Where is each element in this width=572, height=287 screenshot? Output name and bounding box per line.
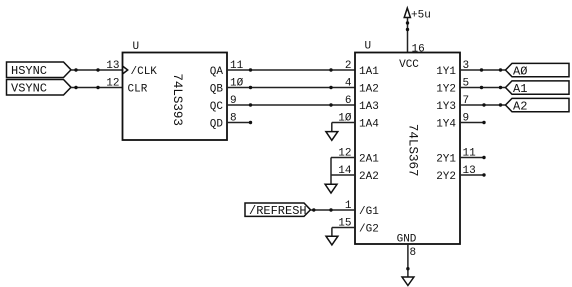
svg-text:74LS367: 74LS367 [406, 124, 420, 177]
svg-text:HSYNC: HSYNC [11, 64, 47, 78]
svg-text:U: U [133, 41, 140, 53]
power +5v symbol [404, 8, 431, 22]
wire 2A2 to ground [331, 158, 355, 185]
wire 2A1 to ground [331, 157, 355, 159]
svg-text:1A1: 1A1 [359, 66, 379, 78]
svg-text:/CLK: /CLK [131, 66, 158, 78]
svg-text:2A2: 2A2 [359, 171, 379, 183]
svg-text:QD: QD [210, 119, 224, 131]
wire 1Y3 to A2 [460, 103, 506, 106]
svg-text:13: 13 [106, 60, 119, 72]
svg-text:2Y2: 2Y2 [436, 171, 456, 183]
ground 2A1 2A2 [325, 184, 337, 193]
svg-text:1Y3: 1Y3 [436, 101, 456, 113]
wire 1Y2 to A1 [460, 86, 506, 89]
wire HSYNC to U1 pin 13 [71, 68, 123, 71]
counter U 74LS393 body [123, 41, 228, 140]
svg-text:8: 8 [410, 247, 417, 259]
svg-text:/G1: /G1 [359, 206, 379, 218]
wire stub QD [227, 121, 252, 124]
svg-text:16: 16 [412, 43, 425, 55]
svg-text:/REFRESH: /REFRESH [249, 204, 307, 218]
svg-text:1Y2: 1Y2 [436, 84, 456, 96]
wire /REFRESH to G1 pin 1 [311, 208, 356, 211]
svg-text:VCC: VCC [399, 59, 419, 71]
buffer U 74LS367 body [355, 41, 460, 246]
svg-text:2: 2 [345, 60, 352, 72]
output flag A1 [506, 81, 570, 96]
wire stub 2Y2 [460, 173, 486, 176]
svg-text:4: 4 [345, 78, 352, 90]
svg-text:1A2: 1A2 [359, 84, 379, 96]
wire QB to 1A2 [227, 86, 355, 89]
svg-text:1Y4: 1Y4 [436, 119, 456, 131]
output flag A0 [506, 63, 570, 78]
wire 1A4 to ground [332, 123, 355, 132]
clock wedge pin 13 [123, 66, 128, 74]
svg-text:A2: A2 [513, 99, 527, 113]
wire stub 2Y1 [460, 156, 486, 159]
svg-text:6: 6 [345, 95, 352, 107]
input flag HSYNC [7, 62, 72, 78]
ground G2 [326, 236, 338, 245]
svg-text:1Y1: 1Y1 [436, 66, 456, 78]
svg-text:1A4: 1A4 [359, 119, 379, 131]
svg-text:12: 12 [106, 78, 119, 90]
svg-text:74LS393: 74LS393 [170, 73, 184, 126]
svg-text:QB: QB [210, 84, 224, 96]
svg-text:1: 1 [345, 200, 352, 212]
svg-text:QC: QC [210, 101, 224, 113]
wire QA to 1A1 [227, 68, 355, 71]
ground 1A4 [326, 132, 338, 141]
svg-text:QA: QA [210, 66, 224, 78]
svg-text:2Y1: 2Y1 [436, 154, 456, 166]
svg-text:/G2: /G2 [359, 224, 379, 236]
svg-text:A1: A1 [513, 82, 527, 96]
wire 1Y1 to A0 [460, 68, 506, 71]
wire GND pin to ground [406, 244, 409, 277]
output flag A2 [506, 98, 570, 113]
svg-text:U: U [365, 41, 372, 53]
svg-text:CLR: CLR [128, 84, 148, 96]
wire QC to 1A3 [227, 103, 355, 106]
svg-text:1A3: 1A3 [359, 101, 379, 113]
svg-text:2A1: 2A1 [359, 154, 379, 166]
svg-text:AØ: AØ [513, 64, 527, 78]
input flag /REFRESH [245, 203, 311, 218]
wire VSYNC to U1 pin 12 [71, 86, 123, 89]
svg-text:VSYNC: VSYNC [11, 82, 47, 96]
svg-text:GND: GND [397, 234, 417, 246]
svg-text:+5u: +5u [411, 10, 431, 22]
wire G2 to ground [332, 228, 355, 237]
wire +5v to VCC pin 16 [406, 18, 409, 53]
ground GND [402, 277, 414, 286]
input flag VSYNC [7, 80, 72, 96]
wire stub 1Y4 [460, 121, 486, 124]
